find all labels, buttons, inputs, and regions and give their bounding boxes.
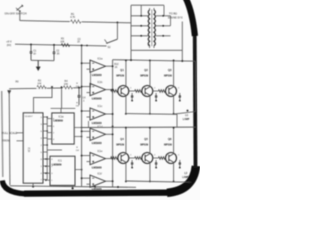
base resistor — [111, 90, 118, 93]
IC U3a (LM3909 box) — [52, 113, 74, 144]
IC2 pin stub — [43, 137, 47, 139]
stub wire between IC boxes — [47, 149, 62, 151]
interstage wire — [155, 166, 157, 168]
op-amp input stubs — [82, 110, 90, 112]
interstage wire — [155, 99, 157, 101]
op-amp output stub — [106, 180, 113, 182]
emitter cap — [131, 160, 133, 163]
base resistor — [135, 90, 142, 93]
IC2 pin stub — [43, 144, 47, 146]
switch S2 blade — [106, 39, 117, 43]
svg-text:1M: 1M — [76, 150, 79, 152]
wire +9V rail — [15, 44, 107, 46]
svg-text:10K: 10K — [37, 83, 42, 85]
svg-text:4.7K: 4.7K — [70, 16, 75, 19]
resistor R2 — [37, 85, 47, 89]
svg-text:IC2: IC2 — [27, 147, 31, 152]
emitter wire — [125, 95, 127, 114]
svg-text:MPS39: MPS39 — [116, 73, 124, 77]
IC3 pin stub — [46, 158, 50, 160]
transformer T1 windings — [148, 10, 149, 46]
op-amp IC1e — [90, 153, 106, 165]
svg-text:Q1: Q1 — [120, 68, 124, 72]
op-amp IC1a — [90, 60, 106, 72]
emitter wire — [173, 95, 175, 114]
wire IC3 bottom to bus — [72, 185, 74, 188]
wire: collector supply rail — [113, 60, 196, 62]
wire: left vertical — [8, 91, 11, 185]
IC2 pin stub — [43, 158, 47, 160]
svg-text:FROM: FROM — [2, 139, 9, 143]
svg-text:1M: 1M — [76, 86, 79, 88]
IC2 pin stub — [43, 130, 47, 132]
op-amp IC1b — [90, 84, 106, 96]
label L1 LAMP — [187, 110, 189, 112]
IC3 pin stub — [46, 179, 50, 181]
IC2 pin stub — [43, 151, 47, 153]
collector wire — [173, 127, 175, 154]
wire to IC3a top — [61, 87, 63, 108]
wire right edge down to lamp — [194, 61, 196, 111]
transformer tap wires — [131, 15, 148, 17]
svg-text:Q4: Q4 — [120, 137, 124, 141]
svg-text:IC1a: IC1a — [98, 58, 104, 60]
wire: row2 emitter line / lamp L2 — [126, 181, 191, 182]
svg-text:LM3909: LM3909 — [52, 162, 62, 166]
svg-text:CD4017: CD4017 — [25, 116, 34, 118]
svg-text:MPS39: MPS39 — [164, 73, 172, 77]
card border: left edge — [2, 91, 3, 177]
svg-text:Q5: Q5 — [144, 137, 148, 141]
wire T1 bottom to rail — [90, 73, 92, 88]
svg-text:(9V): (9V) — [7, 45, 12, 47]
svg-text:Q2: Q2 — [144, 68, 148, 72]
emitter wire — [149, 95, 151, 114]
transistor Q4 — [118, 153, 129, 164]
card border: bottom-right corner arc — [167, 166, 196, 193]
IC2 pin stub — [43, 165, 47, 167]
wire to IC2 top — [34, 87, 53, 113]
emitter cap — [155, 160, 157, 163]
IC2 pin stub — [43, 172, 47, 174]
svg-text:IC1b: IC1b — [98, 82, 104, 84]
IC3 pin stub — [46, 172, 50, 174]
svg-text:LM3900: LM3900 — [92, 73, 102, 77]
IC2 left pin stubs — [17, 132, 24, 134]
op-amp input stubs — [82, 155, 90, 157]
svg-text:LM3900: LM3900 — [92, 165, 102, 169]
resistor R4 — [63, 86, 73, 90]
lamp L1 wire — [173, 112, 196, 115]
card border: bottom edge — [24, 193, 170, 194]
svg-text:LM3909: LM3909 — [53, 119, 63, 123]
capacitor C4 — [78, 88, 80, 96]
svg-text:R13: R13 — [114, 64, 119, 66]
op-amp output stub — [106, 133, 113, 135]
capacitor C1 — [30, 45, 32, 52]
ground arrow — [37, 61, 39, 67]
card border: bottom-left corner arc — [2, 181, 25, 194]
collector wire — [125, 60, 127, 87]
input arrow — [7, 90, 11, 94]
op-amp input stubs — [82, 62, 90, 64]
collector wire — [125, 127, 127, 154]
switch S1 (on-off) — [17, 5, 23, 10]
IC3a pin stub — [47, 118, 52, 120]
base feed wires — [111, 90, 113, 92]
resistor R3 on rail — [61, 44, 69, 47]
interstage wire — [131, 166, 133, 168]
emitter cap — [179, 93, 181, 96]
transistor Q6 — [166, 153, 177, 164]
svg-text:MPS39: MPS39 — [140, 73, 148, 77]
wire: bottom ground bus — [10, 186, 136, 188]
transformer T1 enclosure box — [130, 5, 132, 50]
transistor Q5 — [142, 153, 153, 164]
svg-text:LM3900: LM3900 — [92, 96, 102, 100]
emitter wire — [125, 162, 127, 181]
op-amp input stubs — [82, 177, 90, 179]
collector wire — [173, 60, 175, 87]
capacitor C2 — [53, 45, 55, 52]
svg-text:IC1e: IC1e — [98, 151, 104, 153]
svg-text:ON-OFF SWITCH: ON-OFF SWITCH — [5, 12, 27, 16]
emitter cap — [131, 93, 133, 96]
base resistor — [158, 157, 165, 160]
IC3a pin stub — [47, 125, 52, 127]
op-amp output stub — [106, 158, 113, 160]
wire lamp L1 vertical — [176, 114, 178, 127]
wire: row1 emitter line — [126, 113, 177, 116]
bus wire between ICs — [46, 117, 48, 180]
svg-text:TO 8Ω: TO 8Ω — [169, 12, 177, 16]
op-amp output stub — [106, 65, 113, 67]
IC3 right stub — [75, 169, 82, 171]
svg-text:MPS39: MPS39 — [140, 143, 148, 147]
transformer tap wires — [131, 25, 148, 27]
IC U2 (tall DIP box) — [23, 113, 43, 183]
transistor Q3 — [166, 86, 177, 97]
IC2 pin stub — [43, 116, 47, 118]
svg-text:SOUND SYS: SOUND SYS — [168, 16, 183, 19]
svg-text:MPS39: MPS39 — [164, 143, 172, 147]
collector wire — [149, 60, 151, 87]
wire from switch down — [19, 11, 21, 20]
svg-text:Q6: Q6 — [168, 137, 172, 141]
emitter cap — [179, 160, 181, 163]
IC3a pin stub — [47, 132, 52, 134]
svg-text:IC1f: IC1f — [98, 173, 103, 175]
svg-text:Q3: Q3 — [168, 68, 172, 72]
emitter cap — [155, 93, 157, 96]
op-amp output stub — [106, 113, 113, 115]
svg-text:LAMP: LAMP — [182, 176, 189, 179]
wire: mid rail — [9, 88, 81, 89]
wire: op-amp output bus — [112, 60, 114, 187]
svg-text:LM3900: LM3900 — [92, 187, 102, 191]
collector wire — [149, 127, 151, 154]
svg-text:1K: 1K — [77, 42, 80, 44]
wire: top horizontal line — [20, 21, 131, 23]
svg-text:LAMP: LAMP — [183, 118, 190, 121]
IC2 pin stub — [43, 123, 47, 125]
wire joining caps — [31, 59, 54, 61]
wire down from junction — [116, 23, 118, 40]
op-amp input stubs — [82, 86, 90, 88]
transistor Q1 — [118, 86, 129, 97]
op-amp IC1d — [90, 128, 106, 140]
card border: right edge — [193, 33, 198, 168]
base resistor — [158, 90, 165, 93]
resistor R1 — [70, 20, 82, 24]
node on +9V rail — [53, 44, 55, 46]
card border: top-right corner arc — [186, 0, 195, 36]
node: junction top line — [116, 22, 118, 24]
stub T3 to rail — [88, 121, 90, 128]
svg-text:MPS39: MPS39 — [116, 143, 124, 147]
svg-text:LM3900: LM3900 — [92, 121, 102, 125]
IC3 pin stub — [46, 165, 50, 167]
op-amp output stub — [106, 89, 113, 91]
svg-text:1M: 1M — [76, 105, 79, 107]
wire: op-amp left rail — [81, 45, 83, 186]
emitter wire — [173, 162, 175, 181]
wire IC2 bottom to ground bus — [32, 183, 34, 187]
svg-text:+9 V: +9 V — [6, 40, 12, 44]
op-amp IC1c — [90, 108, 106, 120]
IC2 pin stub — [43, 179, 47, 181]
base feed wires — [111, 157, 113, 159]
wire: mid supply rail — [82, 126, 196, 128]
IC U3 (LM3909 box) — [50, 156, 75, 185]
transformer tap wires — [131, 35, 148, 37]
wires from box to rail — [130, 50, 132, 60]
svg-text:10K: 10K — [60, 41, 65, 43]
IC3a pin stub — [47, 138, 52, 140]
base resistor — [111, 157, 118, 160]
transistor Q2 — [142, 86, 153, 97]
svg-text:FULL SCALE: FULL SCALE — [2, 131, 17, 135]
svg-text:1K: 1K — [115, 67, 118, 69]
svg-text:10K: 10K — [64, 84, 69, 86]
base resistor — [135, 157, 142, 160]
emitter wire — [149, 162, 151, 181]
IC3a right stubs — [74, 127, 81, 129]
interstage wire — [131, 99, 133, 101]
op-amp IC1f — [90, 175, 106, 187]
node on +9V rail — [30, 44, 32, 46]
svg-text:LM3900: LM3900 — [92, 141, 102, 145]
op-amp input stubs — [82, 130, 90, 132]
